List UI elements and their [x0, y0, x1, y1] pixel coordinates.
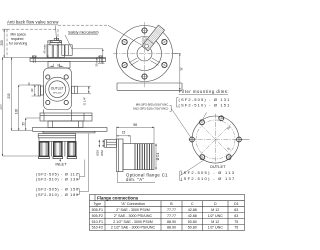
- svg-text:M 12: M 12: [211, 220, 219, 224]
- svg-text:Flange connections: Flange connections: [97, 195, 139, 200]
- svg-text:(SF2-510) - Ø 137: (SF2-510) - Ø 137: [181, 176, 236, 181]
- svg-text:for servicing: for servicing: [9, 42, 27, 46]
- svg-text:Type: Type: [93, 202, 101, 206]
- svg-text:M 12: M 12: [211, 208, 219, 212]
- svg-text:SF2-500: SF2-500: [53, 93, 62, 95]
- svg-text:102: 102: [31, 88, 34, 93]
- svg-text:2 1/2" SAE - 3000 PSI/M: 2 1/2" SAE - 3000 PSI/M: [113, 220, 152, 224]
- svg-text:OUTLET: OUTLET: [51, 86, 64, 90]
- svg-text:215: 215: [7, 93, 11, 99]
- svg-text:15: 15: [122, 131, 126, 135]
- svg-text:75: 75: [234, 226, 238, 230]
- svg-text:Safety microswitch: Safety microswitch: [68, 30, 99, 34]
- svg-text:Min space: Min space: [11, 32, 27, 36]
- svg-text:"B": "B": [180, 67, 184, 71]
- svg-text:Ø D1: Ø D1: [156, 153, 160, 161]
- svg-text:OUTLET: OUTLET: [210, 164, 226, 169]
- svg-text:(SF2-510) - Ø 151: (SF2-510) - Ø 151: [179, 102, 231, 107]
- svg-text:35: 35: [21, 122, 25, 126]
- svg-text:75: 75: [234, 220, 238, 224]
- svg-text:50.80: 50.80: [188, 226, 197, 230]
- svg-text:88.90: 88.90: [167, 226, 176, 230]
- svg-text:required: required: [11, 37, 24, 41]
- svg-text:1/2" UNC: 1/2" UNC: [208, 214, 223, 218]
- svg-text:42.88: 42.88: [188, 214, 197, 218]
- svg-text:(SF2-510) - Ø 139: (SF2-510) - Ø 139: [36, 178, 79, 182]
- svg-text:98: 98: [133, 123, 137, 127]
- svg-text:77.77: 77.77: [167, 214, 176, 218]
- svg-text:Anti back flow valve screw: Anti back flow valve screw: [7, 20, 59, 25]
- svg-text:50.80: 50.80: [188, 220, 197, 224]
- svg-text:dim. "A": dim. "A": [126, 177, 145, 182]
- svg-text:200: 200: [0, 40, 4, 46]
- svg-text:30 max: 30 max: [95, 57, 99, 67]
- svg-text:510-F2: 510-F2: [92, 226, 103, 230]
- svg-text:(SF2-510) - Ø 189: (SF2-510) - Ø 189: [36, 193, 79, 197]
- svg-text:510-F1: 510-F1: [92, 220, 103, 224]
- svg-text:M12 (SF2-510) (7/16"UNC): M12 (SF2-510) (7/16"UNC): [133, 106, 168, 110]
- svg-text:INLET: INLET: [55, 162, 67, 167]
- svg-text:42.88: 42.88: [188, 208, 197, 212]
- svg-text:(SF2-505) - Ø 150: (SF2-505) - Ø 150: [36, 188, 79, 192]
- svg-text:D1: D1: [234, 202, 239, 206]
- svg-text:88.90: 88.90: [167, 220, 176, 224]
- svg-text:505-F1: 505-F1: [92, 208, 103, 212]
- svg-text:70: 70: [57, 64, 61, 68]
- svg-text:63: 63: [234, 208, 238, 212]
- svg-text:505-F2: 505-F2: [92, 214, 103, 218]
- svg-text:Ø62: Ø62: [100, 150, 104, 156]
- svg-text:C: C: [191, 202, 194, 206]
- svg-text:(SF2-505) - Ø 113: (SF2-505) - Ø 113: [181, 170, 235, 175]
- svg-text:2" SAE - 3000 PSI/UNC: 2" SAE - 3000 PSI/UNC: [114, 214, 153, 218]
- svg-text:63: 63: [234, 214, 238, 218]
- svg-text:2" SAE - 3000 PSI/M: 2" SAE - 3000 PSI/M: [116, 208, 149, 212]
- svg-text:(SF2-505) - Ø 112: (SF2-505) - Ø 112: [36, 172, 78, 176]
- svg-text:295: 295: [0, 104, 2, 110]
- svg-text:D: D: [214, 202, 217, 206]
- svg-text:(SF2-505) - Ø 131: (SF2-505) - Ø 131: [179, 97, 231, 102]
- svg-text:G 1/4": G 1/4": [83, 97, 87, 105]
- svg-text:2 1/2" SAE - 3000 PSI/UNC: 2 1/2" SAE - 3000 PSI/UNC: [111, 226, 156, 230]
- svg-text:45 max: 45 max: [42, 44, 46, 54]
- svg-text:"A" Connection: "A" Connection: [121, 202, 145, 206]
- svg-text:Filter mounting dims:: Filter mounting dims:: [179, 89, 229, 94]
- svg-text:1/2" UNC: 1/2" UNC: [208, 226, 223, 230]
- svg-text:130: 130: [14, 109, 18, 115]
- svg-text:77.77: 77.77: [167, 208, 176, 212]
